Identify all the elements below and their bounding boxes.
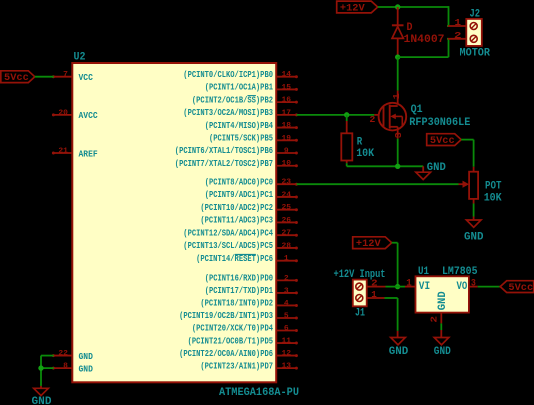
svg-text:1: 1: [371, 289, 377, 300]
svg-text:11: 11: [282, 338, 292, 346]
svg-text:U1: U1: [418, 266, 429, 278]
svg-text:10K: 10K: [356, 148, 374, 160]
svg-text:13: 13: [282, 363, 292, 371]
svg-text:+12V: +12V: [340, 3, 365, 15]
svg-text:RFP30N06LE: RFP30N06LE: [409, 117, 470, 129]
svg-text:(PCINT8/ADC0)PC0: (PCINT8/ADC0)PC0: [205, 177, 273, 187]
svg-text:GND: GND: [434, 346, 451, 358]
svg-text:6: 6: [284, 325, 289, 333]
svg-text:24: 24: [282, 191, 292, 199]
svg-text:(PCINT4/MISO)PB4: (PCINT4/MISO)PB4: [205, 121, 274, 131]
svg-text:(PCINT14/RESET)PC6: (PCINT14/RESET)PC6: [196, 254, 273, 264]
svg-text:18: 18: [282, 122, 292, 130]
svg-text:LM7805: LM7805: [442, 266, 478, 278]
svg-text:19: 19: [282, 135, 292, 143]
svg-text:5Vcc: 5Vcc: [430, 135, 455, 147]
svg-text:(PCINT1/OC1A)PB1: (PCINT1/OC1A)PB1: [205, 83, 273, 93]
svg-text:VO: VO: [457, 281, 468, 293]
svg-text:(PCINT22/OC0A/AIN0)PD6: (PCINT22/OC0A/AIN0)PD6: [179, 349, 273, 359]
svg-text:14: 14: [282, 71, 292, 79]
svg-text:10: 10: [282, 160, 292, 168]
svg-text:(PCINT23/AIN1)PD7: (PCINT23/AIN1)PD7: [200, 361, 273, 371]
svg-text:U2: U2: [74, 52, 86, 64]
svg-text:3: 3: [471, 278, 476, 289]
svg-text:(PCINT9/ADC1)PC1: (PCINT9/ADC1)PC1: [205, 190, 273, 200]
svg-text:1: 1: [392, 93, 402, 100]
svg-text:GND: GND: [427, 162, 446, 174]
svg-text:20: 20: [58, 109, 68, 117]
svg-text:ATMEGA168A-PU: ATMEGA168A-PU: [219, 387, 299, 399]
svg-text:VI: VI: [419, 281, 430, 293]
svg-text:3: 3: [284, 287, 289, 295]
svg-text:AVCC: AVCC: [79, 111, 99, 121]
svg-text:21: 21: [58, 148, 68, 156]
svg-text:GND: GND: [437, 291, 449, 310]
svg-text:R: R: [357, 136, 363, 148]
svg-text:(PCINT13/SCL/ADC5)PC5: (PCINT13/SCL/ADC5)PC5: [183, 241, 273, 251]
svg-text:4: 4: [284, 300, 289, 308]
svg-text:8: 8: [63, 363, 68, 371]
svg-text:(PCINT18/INT0)PD2: (PCINT18/INT0)PD2: [200, 299, 273, 309]
svg-text:5: 5: [284, 312, 289, 320]
svg-text:D: D: [407, 22, 413, 34]
svg-text:16: 16: [282, 97, 292, 105]
svg-text:(PCINT5/SCK)PB5: (PCINT5/SCK)PB5: [209, 134, 273, 144]
svg-text:2: 2: [371, 277, 378, 288]
svg-text:VCC: VCC: [79, 73, 94, 83]
svg-text:POT: POT: [485, 180, 502, 192]
svg-text:12: 12: [282, 350, 292, 358]
svg-text:+12V: +12V: [356, 238, 381, 250]
svg-text:(PCINT0/CLKO/ICP1)PB0: (PCINT0/CLKO/ICP1)PB0: [183, 70, 273, 80]
svg-text:1: 1: [406, 279, 412, 290]
svg-text:1N4007: 1N4007: [404, 34, 445, 46]
svg-text:Q1: Q1: [411, 104, 423, 116]
svg-text:(PCINT10/ADC2)PC2: (PCINT10/ADC2)PC2: [200, 203, 273, 213]
svg-text:(PCINT17/TXD)PD1: (PCINT17/TXD)PD1: [205, 286, 273, 296]
svg-text:2: 2: [369, 115, 375, 125]
svg-text:7: 7: [63, 71, 68, 79]
svg-text:27: 27: [282, 230, 292, 238]
svg-text:(PCINT12/SDA/ADC4)PC4: (PCINT12/SDA/ADC4)PC4: [183, 228, 273, 238]
svg-text:GND: GND: [32, 396, 52, 405]
svg-text:(PCINT7/XTAL2/TOSC2)PB7: (PCINT7/XTAL2/TOSC2)PB7: [175, 159, 273, 169]
svg-text:28: 28: [282, 242, 292, 250]
svg-text:26: 26: [282, 217, 292, 225]
svg-text:(PCINT6/XTAL1/TOSC1)PB6: (PCINT6/XTAL1/TOSC1)PB6: [175, 146, 273, 156]
svg-text:GND: GND: [79, 352, 93, 362]
svg-text:5Vcc: 5Vcc: [508, 282, 533, 294]
svg-text:J1: J1: [355, 308, 365, 320]
svg-text:15: 15: [282, 84, 292, 92]
svg-text:GND: GND: [464, 232, 484, 244]
svg-text:(PCINT11/ADC3)PC3: (PCINT11/ADC3)PC3: [200, 216, 273, 226]
svg-text:3: 3: [394, 132, 404, 138]
svg-text:1: 1: [284, 255, 289, 263]
svg-text:GND: GND: [389, 346, 409, 358]
svg-text:(PCINT2/OC1B/SS)PB2: (PCINT2/OC1B/SS)PB2: [192, 95, 273, 105]
svg-text:22: 22: [58, 350, 68, 358]
svg-text:25: 25: [282, 204, 292, 212]
svg-text:MOTOR: MOTOR: [460, 48, 491, 60]
svg-text:23: 23: [282, 179, 292, 187]
svg-text:5Vcc: 5Vcc: [4, 72, 29, 84]
svg-text:(PCINT21/OC0B/T1)PD5: (PCINT21/OC0B/T1)PD5: [188, 336, 273, 346]
svg-text:1: 1: [455, 17, 462, 28]
svg-text:GND: GND: [79, 364, 93, 374]
svg-text:(PCINT20/XCK/T0)PD4: (PCINT20/XCK/T0)PD4: [192, 324, 274, 334]
svg-text:17: 17: [282, 109, 292, 117]
svg-text:J2: J2: [470, 9, 481, 21]
svg-text:(PCINT19/OC2B/INT1)PD3: (PCINT19/OC2B/INT1)PD3: [179, 311, 273, 321]
svg-text:2: 2: [428, 316, 439, 323]
svg-text:2: 2: [284, 275, 289, 283]
svg-text:(PCINT3/OC2A/MOSI)PB3: (PCINT3/OC2A/MOSI)PB3: [183, 108, 273, 118]
svg-text:AREF: AREF: [79, 149, 98, 159]
svg-text:10K: 10K: [484, 192, 502, 204]
svg-text:(PCINT16/RXD)PD0: (PCINT16/RXD)PD0: [205, 274, 273, 284]
svg-text:9: 9: [284, 148, 289, 156]
svg-text:2: 2: [454, 30, 462, 41]
